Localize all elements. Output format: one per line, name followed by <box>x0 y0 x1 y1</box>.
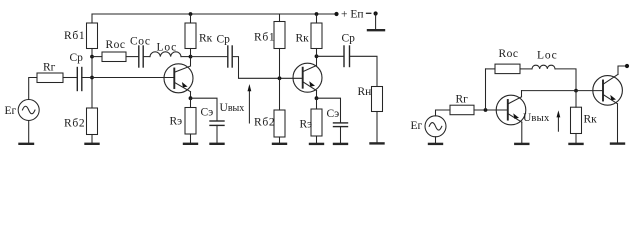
wire Ce1 ground stub <box>216 125 218 143</box>
resistor Rb1 stage1 <box>87 23 98 49</box>
resistor Re1 <box>185 108 196 135</box>
node C3 collector junction <box>574 89 578 93</box>
capacitor Ce1 <box>210 120 224 122</box>
wire Loc2 to C3 <box>555 69 576 91</box>
wire divider1 bottom stub <box>91 135 93 144</box>
wire Q3 collector up <box>521 91 523 97</box>
ground Rk3 <box>570 143 583 145</box>
svg-text:Uвых: Uвых <box>523 112 550 124</box>
svg-text:Rб2: Rб2 <box>254 116 275 128</box>
node A1 feedback tap <box>90 55 94 59</box>
wire Rk1 bottom stub <box>190 49 192 57</box>
inductor Loc stage3 <box>532 65 555 69</box>
wire Ce2 ground stub <box>340 127 342 144</box>
node E2 emitter Q2 <box>315 96 319 100</box>
wire Re1 ground stub <box>190 134 192 144</box>
svg-text:Uвых: Uвых <box>220 102 245 114</box>
wire Eg2 ground stub <box>435 137 437 144</box>
node E1 emitter Q1 <box>189 96 193 100</box>
transistor Q4 <box>593 76 623 106</box>
svg-text:Rб2: Rб2 <box>64 117 85 129</box>
ground Re1 <box>184 143 197 145</box>
wire E2 to Ce2 <box>317 98 341 123</box>
svg-text:Rэ: Rэ <box>300 118 313 130</box>
wire Rk1 top stub <box>190 14 192 23</box>
wire Cp3 to Rn <box>350 56 378 86</box>
node rail end terminal <box>334 12 338 16</box>
wire Rn ground stub <box>376 112 378 144</box>
wire C1 to Cp2 <box>191 56 228 58</box>
ground Rn <box>371 142 384 144</box>
wire C2 to Cp3 <box>317 55 345 57</box>
svg-text:Rг: Rг <box>43 62 56 74</box>
resistor Re2 <box>311 109 322 136</box>
wire Eg2 to Rg2 <box>436 110 451 116</box>
wire divider2 top stub <box>279 14 281 22</box>
ground Re2 <box>310 143 323 145</box>
resistor Rn load <box>372 87 383 112</box>
ground Eg2 <box>429 143 442 145</box>
resistor Rg stage1 <box>37 73 63 83</box>
wire Eg1 to Rg <box>29 78 37 100</box>
svg-text:Ср: Ср <box>217 34 231 46</box>
svg-text:Ег: Ег <box>411 120 423 132</box>
wire Q4 collector to terminal <box>618 66 627 74</box>
node rail junction Rk2 <box>315 12 319 16</box>
node C2 collector Q2 <box>315 54 319 58</box>
svg-text:Сэ: Сэ <box>201 106 214 118</box>
capacitor Cp1 <box>76 68 78 91</box>
wire B3 feedback riser <box>485 69 487 110</box>
svg-text:Сос: Сос <box>130 35 151 47</box>
ground Eg1 <box>20 143 34 145</box>
resistor Rb1 stage2 <box>274 22 285 49</box>
svg-text:Сэ: Сэ <box>327 108 340 120</box>
inductor Loc stage1 <box>150 52 181 57</box>
node B3 base tap <box>484 108 488 112</box>
resistor Rk3 <box>571 107 582 133</box>
ground Q4 emitter <box>611 142 624 144</box>
wire Rg to Cp1 <box>63 77 77 79</box>
transistor Q3 <box>496 95 526 125</box>
svg-text:+ Еп: + Еп <box>341 9 364 21</box>
capacitor Coc <box>138 46 140 67</box>
wire Q3 emitter down <box>521 122 523 143</box>
wire supply minus stub <box>375 14 377 30</box>
svg-text:Rг: Rг <box>456 93 469 105</box>
svg-text:Ср: Ср <box>70 52 84 64</box>
wire divider1 top stub <box>91 14 93 23</box>
wire E1 to Ce1 <box>191 98 218 121</box>
wire top supply rail <box>92 13 337 15</box>
ground supply minus bar <box>368 29 384 31</box>
wire Re2 ground stub <box>316 136 318 144</box>
ground divider1 <box>86 143 99 145</box>
wire Uvyh arrow stage1 <box>248 89 250 123</box>
ground divider2 <box>273 143 286 145</box>
svg-text:Rк: Rк <box>199 33 213 45</box>
generator Eg1 <box>18 100 39 121</box>
resistor Roc stage1 <box>102 52 126 62</box>
wire divider2 bottom stub <box>279 137 281 144</box>
svg-text:Rб1: Rб1 <box>64 30 85 42</box>
wire Rk2 bottom stub <box>316 49 318 57</box>
wire Eg1 ground stub <box>28 121 30 144</box>
node B1 base tap <box>90 76 94 80</box>
wire Q1 emitter down <box>190 92 192 99</box>
wire E1 to Re1 <box>190 98 192 107</box>
wire minus dash <box>367 12 371 14</box>
transistor Q2 <box>293 63 322 92</box>
resistor Rb2 stage1 <box>87 108 98 135</box>
node Q4 collector terminal <box>625 64 629 68</box>
wire Roc2 to Loc2 <box>520 68 532 70</box>
wire Rk3 ground stub <box>575 134 577 144</box>
ground Ce2 <box>334 143 347 145</box>
svg-text:Ср: Ср <box>342 32 356 44</box>
transistor Q1 <box>164 64 193 93</box>
svg-text:Rк: Rк <box>296 33 310 45</box>
svg-text:Loc: Loc <box>537 50 558 62</box>
svg-text:Ег: Ег <box>5 105 17 117</box>
wire E2 to Re2 <box>316 98 318 109</box>
resistor Roc stage3 <box>495 64 520 74</box>
node rail junction Rk1 <box>189 12 193 16</box>
svg-text:Rэ: Rэ <box>170 116 183 128</box>
resistor Rk1 <box>185 23 196 49</box>
generator Eg2 <box>425 116 446 137</box>
svg-text:Roc: Roc <box>106 39 126 51</box>
resistor Rb2 stage2 <box>274 110 285 137</box>
svg-text:Rк: Rк <box>584 113 598 125</box>
resistor Rk2 <box>311 23 322 49</box>
wire Q4 emitter down <box>617 104 619 144</box>
wire Rk2 top stub <box>316 14 318 23</box>
wire Loc to C1 <box>181 56 191 58</box>
wire Rk3 top stub <box>575 91 577 108</box>
wire Rg2 to base Q3 <box>474 109 508 111</box>
ground Q3 emitter <box>515 143 528 145</box>
wire riser to Roc2 <box>486 68 496 70</box>
capacitor Cp2 interstage <box>227 46 229 67</box>
wire Roc to Coc <box>126 56 139 58</box>
node C1 collector Q1 <box>189 55 193 59</box>
wire Q3 collector line to Q4 base <box>522 90 604 92</box>
wire Q2 emitter down <box>316 91 318 99</box>
svg-text:Rб1: Rб1 <box>254 31 275 43</box>
svg-text:Rн: Rн <box>358 86 372 98</box>
wire divider2 middle <box>279 49 281 111</box>
wire Cp1 to B1 and base Q1 <box>82 77 175 79</box>
svg-text:Loc: Loc <box>157 41 178 53</box>
resistor Rg2 <box>450 105 474 115</box>
node B2 base tap stage2 <box>278 76 282 80</box>
ground Ce1 <box>211 143 224 145</box>
capacitor Cp3 output <box>343 46 345 67</box>
wire Q1 collector up <box>190 57 192 66</box>
wire Coc to Loc <box>143 56 150 58</box>
wire A1 to Roc <box>92 56 102 58</box>
wire Cp2 to base Q2 <box>232 57 303 79</box>
svg-text:Roc: Roc <box>499 48 519 60</box>
wire divider1 middle <box>91 49 93 109</box>
node supply minus terminal <box>374 11 378 15</box>
capacitor Ce2 <box>334 122 348 124</box>
wire Q2 collector up <box>316 56 318 65</box>
wire Uvyh arrow stage3 <box>557 115 559 131</box>
